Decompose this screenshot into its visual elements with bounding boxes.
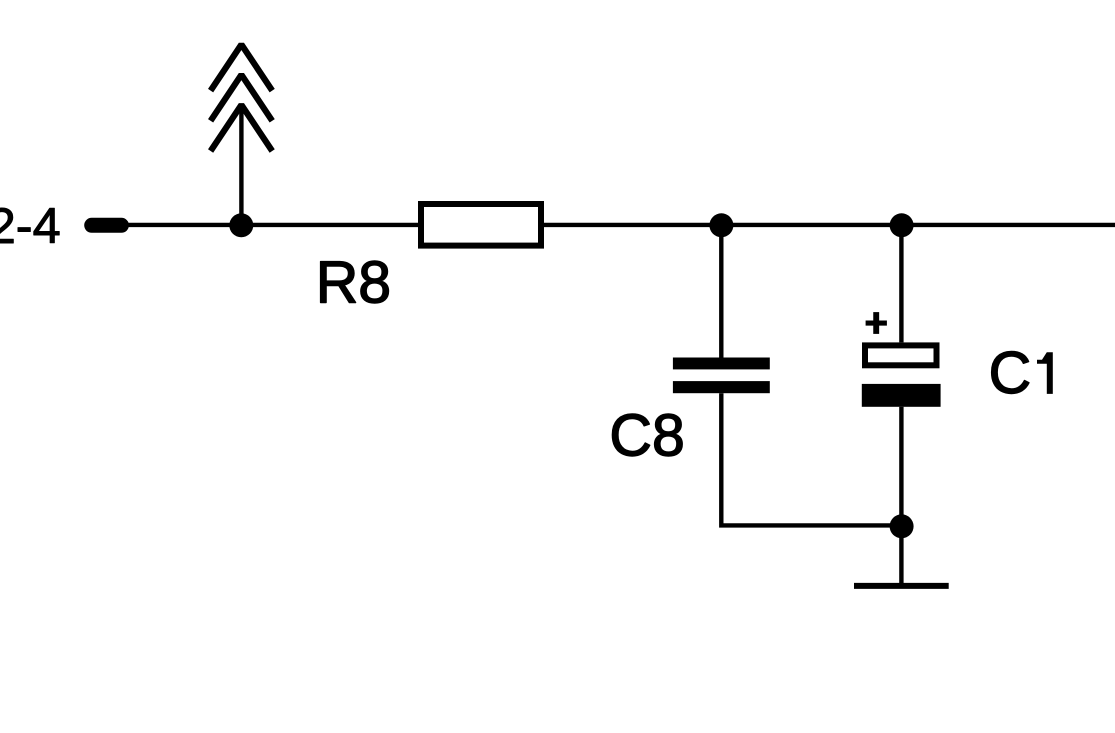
svg-text:R8: R8 [316,250,391,316]
svg-text:C8: C8 [609,403,684,469]
svg-text:C: C [989,340,1032,406]
svg-text:2-4: 2-4 [0,197,61,254]
